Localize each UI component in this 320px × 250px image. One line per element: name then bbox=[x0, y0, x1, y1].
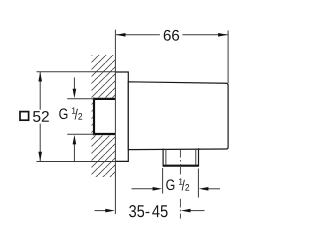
socket (G1/2 female thread in wall) bbox=[93, 98, 116, 136]
dimension 66 extension right bbox=[227, 31, 229, 84]
nipple (G1/2 outlet thread) bbox=[163, 148, 199, 166]
dimension 52 line bbox=[39, 72, 41, 161]
wall hatch bbox=[92, 55, 116, 177]
dimension 35-45 line and arrows bbox=[95, 210, 107, 212]
dimension 66 text bbox=[164, 30, 179, 41]
left G1/2 extension lines bbox=[67, 98, 94, 100]
square symbol bbox=[20, 112, 29, 121]
dimension 66 line bbox=[116, 34, 228, 36]
body (escutcheon housing, side view) bbox=[128, 82, 228, 150]
bottom G1/2 extension lines bbox=[162, 168, 164, 194]
dimension 52 arrows bbox=[38, 72, 42, 82]
bottom G1/2 dimension line and arrows bbox=[132, 188, 154, 190]
left G1/2 text bbox=[59, 107, 82, 119]
dimension 35-45 text bbox=[129, 205, 167, 217]
flange bbox=[115, 72, 128, 161]
dimension 66 arrows bbox=[116, 33, 126, 37]
bottom G1/2 text bbox=[166, 178, 189, 190]
dimension 52 text bbox=[33, 111, 49, 122]
nipple centerline bbox=[179, 150, 181, 219]
wall face line bbox=[114, 30, 116, 214]
left G1/2 arrows bbox=[73, 78, 75, 91]
dimension 52 extension lines bbox=[37, 71, 116, 73]
